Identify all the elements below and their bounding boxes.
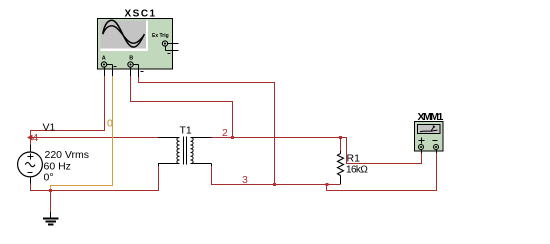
svg-text:60 Hz: 60 Hz [44,160,71,172]
scope Ext Trig terminal [162,41,178,54]
oscilloscope XSC1 body [98,19,173,70]
wire node 3: secondary bottom to resistor bottom [212,166,341,185]
resistor R1 black stub bottom [340,176,342,185]
wire meter minus to node 3 [327,153,437,191]
ground symbol [43,212,59,225]
transformer core [184,137,187,165]
multimeter display [418,125,441,134]
junction ground net [49,189,52,192]
wire orange scope A- to ground node [51,76,113,191]
svg-text:XSC1: XSC1 [125,9,157,20]
node 4 arrow [27,135,33,141]
V1 minus sign [28,172,33,174]
wire resistor top branch [340,138,342,152]
multimeter XMM1 body [415,122,444,152]
multimeter minus sign [433,140,438,142]
multimeter plus pin stub [421,150,423,154]
svg-text:0: 0 [107,117,113,129]
multimeter plus sign [419,138,425,144]
svg-text:3: 3 [242,174,248,186]
transformer secondary winding [191,138,194,164]
junction node2/scope B+ [231,136,234,139]
transformer T1 leads [158,138,212,164]
scope channel A terminal [101,62,116,76]
transformer primary winding [177,138,180,164]
wire node 2: secondary top to meter plus [212,138,422,164]
scope trace B (small sine) [103,26,144,43]
multimeter minus terminal [434,145,439,150]
transformer bottom-left black stub [158,164,160,167]
wire V1 bottom to transformer primary bottom [31,166,159,191]
oscilloscope screen [101,21,147,49]
wire scope B+ to node 2 [131,76,233,138]
junction node2/resistor [339,136,342,139]
svg-text:Ex Trig: Ex Trig [152,33,169,39]
wire scope B- to node 3 [139,77,275,185]
svg-text:T1: T1 [180,125,192,137]
svg-text:2: 2 [222,127,228,139]
multimeter minus pin stub [436,150,438,154]
svg-text:A: A [102,56,106,62]
multimeter plus terminal [419,145,424,150]
oscilloscope screen white bevel [101,21,149,52]
junction node3/scope B- [273,183,276,186]
AC source V1 circle [18,152,43,177]
scope pin stub A+ [104,67,106,76]
resistor R1 zigzag [338,154,344,176]
svg-text:V1: V1 [43,122,56,134]
V1 sine symbol [25,163,35,167]
resistor R1 black stub top [340,151,342,154]
scope channel B terminal [128,62,144,77]
scope pin stub B+ [130,67,132,76]
svg-text:220 Vrms: 220 Vrms [45,149,90,161]
multimeter needle icon [420,126,438,132]
svg-text:0°: 0° [44,172,54,184]
svg-text:16kΩ: 16kΩ [346,165,368,176]
scope trace A (large sine) [103,20,145,47]
svg-text:R1: R1 [347,153,361,165]
wire node4 to transformer primary top [29,137,158,139]
wire ground branch [50,191,52,213]
V1 plus sign [28,154,34,160]
transformer bottom-right black stub [211,164,213,167]
junction node3/meter [326,183,329,186]
svg-text:B: B [129,56,133,62]
svg-text:4: 4 [33,132,39,144]
wire scope A+ to V1 top riser [31,76,105,145]
V1 bottom pin stub [30,177,32,184]
V1 top pin stub [30,145,32,153]
